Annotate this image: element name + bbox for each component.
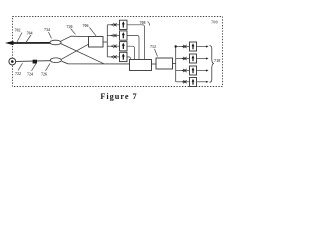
input arrow (left, thick line with left-pointing arrowhead) (5, 41, 51, 45)
output wire R3 (197, 69, 209, 71)
label 726 with leader (41, 63, 50, 76)
beam D (lens2 to amplifier chain) (62, 61, 130, 64)
amp box 710 (130, 60, 152, 71)
branch to PD R2 (176, 57, 190, 60)
wire D3 to amp box (127, 46, 135, 59)
branch to detector D3 (107, 45, 119, 48)
amp box 712 (156, 58, 173, 69)
lens L2 (50, 58, 61, 63)
PD box R2 (190, 54, 197, 63)
svg-text:718: 718 (214, 58, 220, 63)
label 702 with leader (15, 28, 23, 44)
output wire R2 (197, 57, 209, 59)
beam A (lens1 to coupler top) (61, 36, 89, 41)
modulator mark on fiber 2 (33, 60, 37, 64)
detector box D3 (120, 42, 128, 51)
branch to detector D2 (107, 34, 119, 37)
wire amp712 to bus2 (173, 63, 176, 65)
bus1 vertical (106, 25, 108, 57)
wire amp710 to amp712 (152, 63, 157, 65)
svg-text:708: 708 (140, 20, 146, 25)
source 2: circled-dot laser (9, 58, 16, 65)
label 724 with leader (27, 64, 36, 77)
detector box D2 (120, 31, 128, 40)
brace 718 (210, 46, 214, 83)
detector box D1 (120, 20, 128, 29)
svg-text:734: 734 (44, 27, 50, 32)
label 706 with leader (83, 23, 97, 36)
dashed system boundary 700 (13, 17, 223, 87)
svg-text:724: 724 (27, 72, 33, 77)
svg-text:702: 702 (15, 28, 21, 33)
svg-text:704: 704 (27, 31, 33, 36)
coupler box 706 (89, 37, 104, 48)
output wire R1 (197, 45, 209, 47)
detector box D4 (120, 52, 128, 61)
PD box R1 (190, 42, 197, 51)
label 720 with leader (67, 24, 76, 34)
svg-text:722: 722 (15, 71, 21, 76)
branch to PD R1 (176, 45, 190, 48)
svg-text:706: 706 (83, 23, 89, 28)
svg-text:Figure 7: Figure 7 (100, 92, 137, 101)
branch to PD R3 (176, 69, 190, 72)
wire D1 to amp box (127, 25, 145, 60)
svg-text:700: 700 (211, 20, 219, 25)
beam B (lens1 down to lower fiber) (61, 44, 104, 64)
output wire R4 (197, 81, 209, 83)
fiber 2 (16, 60, 50, 63)
label 704 with leader (26, 31, 33, 44)
label 722 with leader (15, 63, 23, 76)
svg-text:726: 726 (41, 72, 47, 77)
PD box R3 (190, 66, 197, 75)
lens L1 (50, 40, 61, 45)
bus2 vertical (175, 47, 177, 82)
branch to detector D1 (107, 23, 119, 26)
label 708 with leader (140, 20, 150, 26)
wire D2 to amp box (127, 36, 139, 60)
label 734 with leader (44, 27, 52, 39)
wire coupler to bus1 (103, 41, 107, 43)
branch to detector D4 (107, 55, 119, 58)
PD box R4 (190, 78, 197, 87)
wire D4 to amp box (127, 57, 131, 60)
svg-text:712: 712 (150, 44, 156, 49)
branch to PD R4 (176, 80, 190, 83)
svg-text:720: 720 (67, 24, 73, 29)
label 712 with leader (150, 44, 158, 57)
beam C (lens2 up to coupler bottom) (62, 44, 89, 59)
bus2 junction dot (175, 45, 177, 47)
